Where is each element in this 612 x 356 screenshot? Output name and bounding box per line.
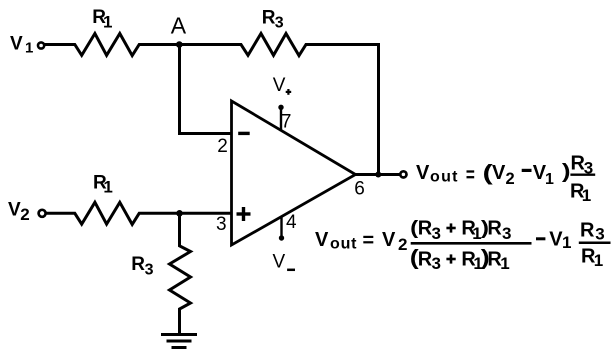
svg-text:V: V	[273, 252, 286, 273]
svg-text:3: 3	[432, 254, 441, 273]
svg-text:3: 3	[432, 224, 441, 243]
svg-text:V: V	[416, 162, 430, 184]
svg-text:2: 2	[398, 235, 407, 254]
svg-text:R: R	[487, 218, 502, 240]
svg-text:1: 1	[582, 186, 591, 205]
svg-text:1: 1	[500, 254, 509, 273]
svg-text:V: V	[492, 162, 506, 184]
svg-text:3: 3	[145, 261, 154, 278]
svg-text:1: 1	[594, 251, 603, 270]
svg-text:V: V	[8, 199, 21, 220]
svg-text:6: 6	[354, 179, 365, 200]
svg-text:1: 1	[545, 171, 554, 188]
svg-text:A: A	[171, 13, 187, 39]
svg-text:out: out	[430, 169, 459, 186]
svg-text:1: 1	[562, 233, 571, 252]
svg-text:): )	[562, 160, 571, 182]
svg-text:4: 4	[286, 212, 297, 233]
svg-text:2: 2	[20, 205, 29, 224]
svg-text:2: 2	[506, 170, 515, 188]
svg-text:V: V	[315, 229, 329, 251]
svg-text:2: 2	[217, 136, 228, 157]
svg-text:R: R	[131, 254, 145, 275]
svg-text:V: V	[10, 34, 23, 55]
svg-text:3: 3	[216, 214, 227, 235]
svg-text:R: R	[262, 8, 276, 29]
svg-text:V: V	[273, 75, 286, 96]
svg-text:3: 3	[595, 225, 604, 244]
svg-text:1: 1	[103, 178, 112, 197]
svg-text:1: 1	[25, 39, 33, 56]
svg-text:7: 7	[281, 112, 292, 133]
svg-text:V: V	[382, 229, 396, 251]
svg-text:1: 1	[103, 12, 112, 31]
svg-text:3: 3	[275, 14, 284, 31]
svg-text:R: R	[580, 219, 595, 241]
svg-text:3: 3	[502, 224, 511, 243]
svg-text:out: out	[330, 235, 357, 252]
